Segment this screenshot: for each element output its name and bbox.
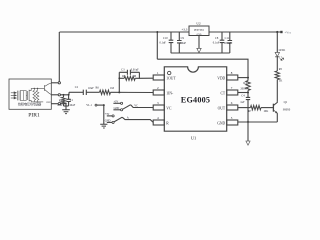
pin 2 pad of U1 (153, 90, 164, 95)
PIR module box (9, 79, 51, 109)
contact circle lower +3V (112, 115, 114, 117)
svg-text:VC: VC (166, 107, 172, 111)
switch arm upper (123, 105, 131, 110)
svg-text:0.01uF: 0.01uF (131, 69, 139, 72)
wire R7 to Q1 base (261, 107, 273, 109)
svg-text:C11: C11 (225, 37, 230, 40)
wire upper GND stub (113, 109, 120, 111)
resistor R4 (246, 81, 250, 91)
resistor R7 (250, 105, 261, 109)
resistor R5 (275, 71, 279, 80)
wire VDD pin to feed (238, 77, 248, 79)
svg-text:47K: 47K (57, 104, 62, 107)
capacitor C1 leads (68, 95, 70, 106)
wire chain to C2 (69, 91, 83, 93)
wire C2 to R6 (86, 91, 99, 93)
capacitor C2 plates (83, 90, 86, 95)
svg-text:1M: 1M (110, 87, 114, 90)
wire PIR OUT to R1/C1 junction (60, 92, 69, 95)
svg-text:10uF: 10uF (180, 42, 186, 45)
junction R1 top (63, 94, 65, 96)
transistor Q1 base bar (272, 104, 274, 112)
terminal +Vcc (277, 31, 282, 33)
svg-text:VDD: VDD (217, 77, 225, 81)
LED LED1 (275, 52, 279, 56)
svg-text:C10: C10 (163, 37, 168, 40)
ground under U2 (197, 48, 201, 52)
svg-text:OUT: OUT (218, 107, 226, 111)
wire +3.3V rail from corner to U2 (60, 31, 190, 33)
capacitor C8 lead (221, 32, 223, 53)
capacitor C4 plates (246, 97, 250, 99)
pin 8 pad of U1 (227, 75, 238, 80)
svg-text:1uF: 1uF (240, 101, 245, 104)
resistor internal Rb (36, 90, 39, 100)
wire PIR OUT to terminal (51, 94, 58, 96)
capacitor C8 plates (220, 40, 225, 42)
wire feedback loop right side (135, 72, 139, 78)
svg-text:1K: 1K (279, 80, 282, 83)
svg-text:200K: 200K (240, 87, 246, 90)
svg-text:GND: GND (217, 122, 225, 126)
wire PIR GND to ground (60, 104, 66, 110)
wire OUT pin to R7 (238, 107, 251, 109)
svg-text:10uF: 10uF (69, 104, 75, 107)
svg-text:PIR1: PIR1 (28, 113, 40, 119)
junction R3 left node (118, 77, 120, 79)
wire Q1 emitter to ground line (276, 113, 278, 122)
wire PIR VCC terminal to box (51, 82, 58, 84)
pin 1 pad of U1 (153, 75, 164, 80)
svg-text:GND: GND (46, 102, 51, 104)
svg-text:0.1uF: 0.1uF (213, 42, 220, 45)
wire switch to pin 4 (122, 117, 153, 122)
wire internal bottom rail of PIR1 (31, 101, 43, 103)
IC U1 EG4005 body (164, 67, 226, 131)
svg-text:+3.3: +3.3 (182, 27, 188, 31)
ground arrow below IC (246, 141, 250, 145)
infrared arrows into sensor (11, 92, 16, 99)
wire left vertical from rail down to PIR VCC terminal (58, 32, 60, 82)
capacitor C10 plates (169, 40, 174, 42)
wire loop to pin 1 (139, 77, 153, 79)
svg-text:HT7333: HT7333 (194, 29, 204, 32)
capacitor C10 lead (170, 32, 172, 53)
wire R5 to Q1 collector (276, 80, 278, 102)
svg-text:热释电红外传感器: 热释电红外传感器 (18, 102, 42, 107)
dual element window (20, 91, 26, 101)
voltage regulator U2 box (189, 26, 209, 36)
svg-text:LED1: LED1 (279, 49, 286, 52)
junction feedback left node (118, 91, 120, 93)
capacitor C9 plates (177, 41, 182, 43)
terminal OUT of PIR1 (58, 94, 60, 96)
wire internal top rail of PIR1 (31, 87, 44, 89)
transistor Q1 collector (273, 102, 277, 106)
ground under R1 C1 (62, 110, 70, 114)
wire C3 top branch (119, 71, 139, 73)
wire GND pin line to emitter (238, 121, 277, 123)
junction rail tap (156, 31, 158, 33)
transistor internal follower (45, 83, 52, 95)
wire LED1 to R5 (276, 57, 278, 71)
capacitor C9 lead (178, 32, 180, 53)
junction ground drop node (247, 121, 249, 123)
terminal VL1 (95, 104, 97, 106)
junction CT node (247, 92, 249, 94)
capacitor C11 lead (229, 32, 231, 53)
capacitor C11 plates (228, 41, 233, 43)
wire +3.3 tap vertical (156, 32, 158, 59)
junction VDD node (247, 77, 249, 79)
svg-text:U2: U2 (196, 22, 201, 26)
svg-text:S8050: S8050 (283, 107, 291, 111)
wire CT pin to RC node (238, 92, 248, 94)
junction C1 top (68, 94, 70, 96)
svg-text:1IN-: 1IN- (166, 92, 174, 96)
wire feedback loop left side (118, 72, 120, 92)
svg-text:1OUT: 1OUT (166, 77, 176, 81)
svg-text:EG4005: EG4005 (181, 96, 210, 105)
capacitor C4 leads (247, 93, 249, 123)
resistor R1 leads (63, 95, 65, 106)
pin 7 pad of U1 (227, 90, 238, 95)
wire +3.3 feed line to VDD (157, 59, 248, 77)
pyro sensing element plates (17, 91, 19, 101)
pin 6 pad of U1 (227, 105, 238, 110)
svg-text:U1: U1 (191, 136, 196, 141)
terminal GND of PIR1 (58, 103, 60, 105)
junction +Vcc node (276, 31, 278, 33)
wire +Vcc rail from U2 to +Vcc terminal (209, 31, 277, 33)
svg-text:+Vcc: +Vcc (285, 31, 292, 35)
svg-text:100uF: 100uF (224, 42, 232, 45)
ground under switch area (100, 124, 107, 128)
pin-1 marker dot of U1 (168, 71, 171, 74)
wire R1 C1 bottoms join (64, 105, 69, 107)
wire R3 bottom branch left (119, 77, 124, 79)
contact circle lower GND (112, 121, 114, 123)
pin 4 pad of U1 (153, 120, 164, 125)
svg-text:0.1uF: 0.1uF (160, 42, 167, 45)
FET inside PIR1 (26, 88, 31, 102)
terminal VCC of PIR1 (58, 82, 60, 84)
wire ground drop below IC (247, 122, 249, 141)
pin 5 pad of U1 (227, 120, 238, 125)
capacitor C1 plates (66, 99, 70, 101)
resistor R3 (124, 76, 135, 80)
wire R6 to pin 2 (111, 91, 154, 93)
capacitor C3 plates (127, 70, 130, 75)
resistor internal Ra (33, 90, 36, 100)
resistor R1 (62, 97, 66, 103)
resistor R6 (100, 90, 111, 94)
wire switch to pin 3 (131, 105, 154, 108)
wire lower GND stub (107, 121, 112, 123)
wire ground drop of switch area (103, 105, 105, 124)
svg-text:VL.1: VL.1 (86, 104, 92, 107)
svg-text:10K: 10K (263, 110, 268, 113)
wire U2 GND down to ground line (198, 36, 200, 49)
svg-text:Q1: Q1 (284, 100, 288, 104)
pin 3 pad of U1 (153, 105, 164, 110)
wire VL1 to ground node (97, 104, 104, 106)
wire +Vcc down to LED1 (276, 32, 278, 52)
wire upper +3V stub (113, 102, 120, 104)
wire PIR GND to terminal (51, 103, 58, 105)
resistor R4 leads (247, 78, 249, 93)
contact circle upper +3V (121, 102, 123, 104)
wire ground line under U2 (171, 52, 230, 54)
wire lower +3V stub (107, 115, 112, 117)
switch arm lower (114, 117, 122, 122)
svg-text:CT: CT (220, 92, 225, 96)
junction VL1 ground node (103, 104, 105, 106)
transistor Q1 emitter with arrow (273, 110, 277, 114)
junction dots internal (34, 88, 39, 89)
svg-text:10uF: 10uF (88, 87, 94, 90)
contact circle upper GND (121, 109, 123, 111)
